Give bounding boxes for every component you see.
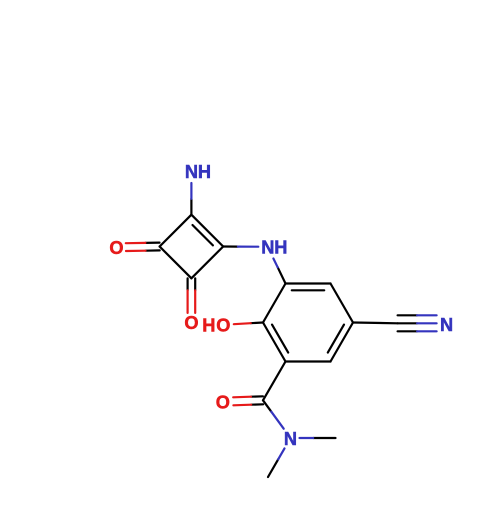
triple bond C#N line xyxy=(398,314,418,316)
svg-text:O: O xyxy=(109,238,123,258)
bond C1=C4 inner line xyxy=(193,225,213,245)
double bond C2=O2 xyxy=(187,278,189,290)
bond C2-C1 (squarate) xyxy=(191,247,223,279)
svg-text:O: O xyxy=(184,313,198,333)
bond C3-C2 (squarate) xyxy=(160,247,192,279)
svg-text:O: O xyxy=(216,392,230,412)
svg-text:N: N xyxy=(440,315,453,335)
ring inner line top xyxy=(292,289,324,291)
svg-text:O: O xyxy=(216,316,230,336)
ring bond Ctr-Cr xyxy=(331,284,354,323)
ring bond Cbl-Cl (aromatic) xyxy=(263,323,286,362)
double bond Cam=O4 xyxy=(251,395,263,398)
ring bond Cr-Cbr (aromatic) xyxy=(331,323,354,362)
ring bond Ctl-Ctr (top, aromatic) xyxy=(286,282,331,284)
bond N1-C4 (squarate NH) xyxy=(190,199,192,215)
ring inner line left-lower xyxy=(272,325,288,353)
bond C1=C4 main (squarate ene) xyxy=(191,215,223,247)
bond N5-CH3 lower-left xyxy=(268,459,278,477)
bond ring-C(amide) xyxy=(263,362,286,401)
svg-text:H: H xyxy=(274,238,287,258)
bond ring-C(nitrile) xyxy=(353,321,398,324)
svg-text:H: H xyxy=(198,162,211,182)
ring bond Cl-Ctl xyxy=(263,284,286,323)
bond N5-CH3 right xyxy=(313,437,335,439)
ring inner line right-lower xyxy=(328,325,344,353)
ring bond Cbr-Cbl (bottom) xyxy=(286,360,331,362)
bond C1-N2 (anilino NH) xyxy=(223,245,238,247)
bond C4-C3 (squarate) xyxy=(160,215,192,247)
bond N2-ring C (aryl) xyxy=(278,267,286,283)
double bond C3=O1 xyxy=(145,242,159,244)
bond ring-OH xyxy=(251,321,263,324)
svg-text:N: N xyxy=(284,429,297,449)
svg-text:N: N xyxy=(185,162,198,182)
bond Cam-N5 (amide N) xyxy=(263,400,271,411)
svg-text:H: H xyxy=(202,316,215,336)
svg-text:N: N xyxy=(261,238,274,258)
